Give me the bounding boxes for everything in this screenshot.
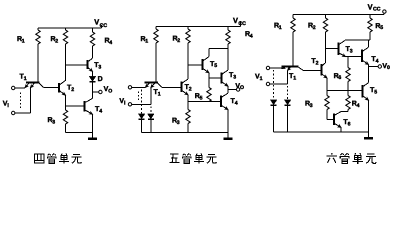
ground circuit3: [364, 132, 373, 138]
wire bottom rail circuit3: [274, 131, 369, 133]
svg-text:2: 2: [316, 60, 319, 66]
svg-text:5: 5: [200, 95, 203, 101]
wire R3 bottom to T6 base circuit3: [327, 119, 334, 121]
resistor R5 circuit2: [207, 88, 211, 102]
wire T1 collector to T2 base: [44, 86, 60, 88]
wire T1 collector to T2 base circuit3: [304, 70, 322, 72]
svg-text:2: 2: [55, 38, 58, 44]
wire dashed clamp2 circuit3: [287, 86, 289, 100]
wire bottom rail circuit2: [142, 132, 228, 134]
wire output node to T5 collector circuit3: [368, 67, 370, 83]
resistor R1: [36, 28, 40, 82]
svg-text:3: 3: [350, 48, 353, 54]
resistor R2 circuit2: [186, 27, 190, 66]
svg-text:1: 1: [145, 38, 148, 44]
transistor T2 circuit2: [182, 65, 189, 102]
svg-text:3: 3: [98, 64, 101, 70]
svg-text:5: 5: [214, 63, 217, 69]
node input1 terminal circuit2: [128, 86, 131, 89]
svg-text:4: 4: [376, 58, 379, 64]
wire T2 emitter to T4 base circuit2: [188, 101, 221, 103]
diode clamp D1 circuit2: [138, 114, 145, 133]
svg-text:CC: CC: [238, 21, 246, 27]
transistor T5 circuit3: [363, 83, 369, 132]
svg-text:CC: CC: [100, 23, 108, 29]
node input2 terminal circuit2: [128, 103, 131, 106]
caption five-transistor unit 五管单元: [169, 154, 216, 164]
resistor R4: [90, 28, 94, 58]
wire dashed clamp1 circuit2: [141, 90, 143, 114]
svg-text:4: 4: [235, 100, 238, 106]
wire VCC top rail circuit2: [156, 21, 241, 27]
node VCC terminal circuit3: [383, 10, 386, 13]
resistor R1 circuit2: [154, 27, 158, 83]
resistor R4 circuit3: [346, 91, 350, 112]
wire input2 circuit2: [132, 88, 151, 105]
svg-text:1: 1: [293, 75, 296, 81]
transistor T3 circuit2: [222, 44, 229, 90]
wire T1 collector to T2 base circuit2: [162, 86, 182, 88]
diode clamp D2 circuit3: [284, 100, 291, 132]
resistor R6 circuit3: [346, 57, 350, 91]
resistor R3 circuit2: [186, 102, 190, 133]
svg-text:2: 2: [313, 25, 316, 31]
wire output circuit2: [228, 89, 236, 91]
wire dashed clamp1 circuit3: [273, 70, 275, 100]
node input2 terminal circuit1: [12, 111, 15, 114]
node input1 terminal circuit1: [12, 86, 15, 89]
svg-text:6: 6: [338, 75, 341, 81]
wire dashed input ellipsis circuit2: [138, 92, 140, 102]
svg-text:1: 1: [260, 76, 263, 82]
wire R5 bottom node to T3 T4 collectors circuit3: [345, 39, 370, 41]
transistor T1 circuit3: [282, 67, 304, 71]
wire input1 circuit3: [270, 67, 282, 69]
svg-text:1: 1: [24, 76, 27, 82]
svg-text:4: 4: [357, 103, 360, 109]
svg-text:3: 3: [310, 103, 313, 109]
svg-text:6: 6: [348, 121, 351, 127]
ground circuit1: [88, 133, 97, 139]
svg-text:2: 2: [177, 38, 180, 44]
ground circuit2: [223, 133, 232, 139]
svg-text:3: 3: [52, 119, 55, 125]
svg-text:V: V: [233, 16, 238, 25]
wire dashed clamp2 circuit2: [150, 107, 152, 114]
resistor R4 circuit2: [226, 27, 230, 71]
wire VCC top rail circuit1: [38, 25, 102, 28]
transistor T4: [85, 92, 93, 133]
svg-text:1: 1: [158, 91, 161, 97]
svg-text:1: 1: [279, 25, 282, 31]
wire T2 emitter to T5 base circuit3: [327, 90, 363, 92]
wire input2 circuit1: [15, 88, 31, 113]
wire T3 emitter to T4 base circuit3: [346, 56, 363, 58]
svg-text:4: 4: [250, 33, 253, 39]
transistor T3: [88, 58, 93, 76]
wire bottom rail circuit1: [66, 132, 93, 134]
wire T5 emitter node to T3 base circuit2: [209, 78, 222, 88]
svg-text:5: 5: [374, 89, 377, 95]
resistor R2: [63, 28, 67, 65]
diode clamp D1 circuit3: [270, 100, 277, 132]
svg-text:3: 3: [233, 74, 236, 80]
svg-text:2: 2: [189, 87, 192, 93]
diode clamp D2 circuit2: [147, 114, 154, 133]
wire output circuit3: [369, 66, 379, 68]
caption six-transistor unit 六管单元: [326, 153, 376, 164]
svg-text:D: D: [98, 76, 103, 83]
transistor T4 circuit3: [362, 40, 369, 67]
wire input2 circuit3: [270, 71, 288, 84]
wire T2 emitter to T4 base: [66, 105, 85, 107]
transistor T5 circuit2: [203, 49, 229, 79]
transistor T2: [59, 65, 66, 106]
node output terminal Vo circuit3: [378, 65, 381, 68]
wire input1 circuit2: [132, 86, 146, 88]
transistor T3 circuit3: [339, 40, 346, 57]
svg-text:O: O: [240, 85, 244, 91]
svg-text:1: 1: [22, 38, 25, 44]
svg-text:CC: CC: [373, 6, 381, 12]
transistor T4 circuit2: [221, 90, 228, 133]
svg-text:V: V: [368, 3, 373, 12]
wire dashed input ellipsis circuit1: [20, 93, 22, 110]
resistor R1 circuit3: [291, 15, 295, 66]
transistor T1: [25, 83, 44, 88]
svg-text:O: O: [108, 88, 112, 94]
transistor T6 circuit3: [334, 112, 348, 132]
transistor T2 circuit3: [322, 49, 328, 91]
svg-text:4: 4: [99, 108, 102, 114]
wire R2 bottom node to T3 base circuit3: [326, 48, 339, 50]
svg-text:V: V: [94, 18, 99, 27]
svg-text:4: 4: [109, 40, 112, 46]
transistor T1 circuit2: [145, 83, 163, 88]
node input1 terminal circuit3: [266, 66, 269, 69]
node output terminal Vo circuit2: [236, 88, 239, 91]
resistor R2 circuit3: [323, 15, 327, 49]
wire output circuit1: [93, 91, 99, 93]
node input2 terminal circuit3: [266, 82, 269, 85]
svg-text:2: 2: [71, 87, 74, 93]
svg-text:3: 3: [177, 120, 180, 126]
svg-text:5: 5: [380, 25, 383, 31]
wire node T2 collector to T3 base: [66, 64, 88, 66]
wire input1 circuit1: [15, 87, 25, 89]
resistor R3: [63, 106, 67, 133]
resistor R3 circuit3: [325, 91, 329, 120]
resistor R5 circuit3: [368, 15, 372, 41]
diode D: [89, 76, 96, 81]
caption four-transistor unit 四管单元: [35, 154, 82, 164]
wire VCC top rail circuit3: [293, 13, 384, 14]
wire T2 collector node to T5 base circuit2: [188, 64, 203, 66]
svg-text:0: 0: [387, 65, 390, 71]
node output terminal Vo circuit1: [99, 90, 102, 93]
wire diode cathode to output node: [92, 82, 94, 92]
